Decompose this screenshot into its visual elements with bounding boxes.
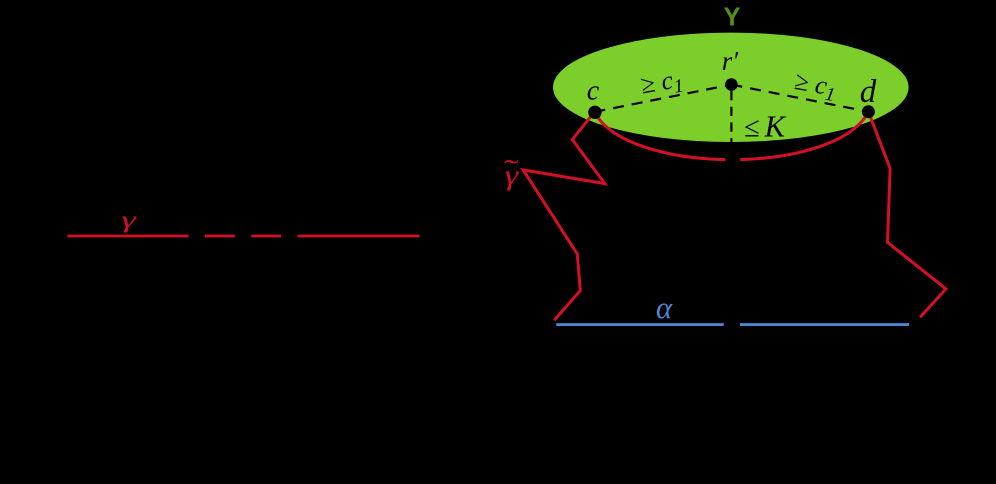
svg-text:˜: ˜ [504, 154, 519, 184]
node r' (dot) [725, 78, 738, 91]
svg-text:≤K: ≤K [744, 110, 787, 144]
red path right branch from d down to alpha line [868, 112, 946, 318]
ellipse region Y (green fill) [553, 33, 909, 142]
blue line alpha (two segments) [556, 323, 909, 326]
svg-text:d: d [860, 74, 877, 110]
svg-text:r′: r′ [722, 46, 740, 76]
svg-text:α: α [656, 290, 673, 325]
svg-text:γ: γ [121, 206, 136, 233]
svg-text:Y: Y [723, 4, 740, 32]
dashed segment r' to d [731, 85, 868, 112]
label gamma tilde [504, 154, 520, 191]
vertical dashed segment r' down (<= K) [730, 91, 732, 160]
red dashed line gamma (left) [68, 235, 420, 238]
dashed segment c to r' [594, 85, 731, 112]
node d (dot) [862, 105, 875, 118]
red zigzag path (gamma tilde) left branch from c down to alpha line [523, 112, 605, 320]
node c (dot) [588, 106, 601, 119]
red arc from c to d under the ellipse (with center gap) [594, 112, 868, 160]
svg-text:c: c [587, 76, 600, 107]
